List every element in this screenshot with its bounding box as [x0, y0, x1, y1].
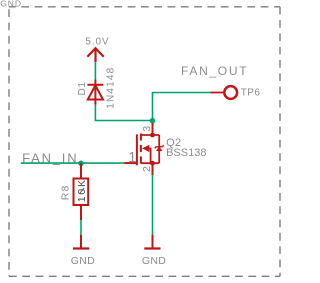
substrate arrow: [142, 145, 149, 152]
svg-text:2: 2: [141, 166, 153, 172]
transistor Q2 (N-MOSFET BSS138): [124, 133, 159, 165]
resistor R8 lead from FAN_IN node: [80, 163, 82, 178]
ground (Q2 source): [144, 235, 160, 249]
body diode cathode bar: [155, 145, 164, 148]
wire Q2 source to GND: [152, 175, 154, 235]
svg-text:R8: R8: [60, 184, 72, 200]
diode D1: [87, 80, 103, 105]
slashed zero of 10K: [80, 188, 84, 193]
gate plate: [136, 134, 138, 165]
channel segments: [140, 133, 142, 140]
wire D1 anode down and right to Q2 drain node: [95, 105, 152, 121]
source rail: [141, 162, 159, 164]
junction FAN_IN / R8: [78, 161, 84, 167]
wire drain node up and right to TP6: [153, 93, 211, 121]
svg-text:3: 3: [141, 126, 153, 132]
wire FAN_IN to Q2 gate: [21, 162, 124, 164]
body diode triangle: [156, 147, 163, 151]
resistor R8 bottom lead: [80, 205, 82, 220]
body rail: [158, 135, 160, 163]
wire 5.0V to D1 cathode: [94, 62, 96, 80]
pin 3 drain lead: [152, 123, 154, 135]
svg-text:GND: GND: [71, 255, 95, 267]
junction drain node: [150, 118, 156, 124]
svg-text:GND: GND: [0, 0, 22, 8]
drain rail: [141, 134, 159, 136]
svg-text:1: 1: [128, 150, 136, 166]
pin 2 source lead: [152, 163, 154, 175]
supply +5.0V symbol: [87, 48, 103, 62]
svg-text:D1: D1: [77, 82, 88, 96]
svg-text:GND: GND: [142, 255, 166, 267]
source pin junction dot: [150, 161, 155, 166]
svg-text:TP6: TP6: [241, 87, 261, 98]
svg-text:1N4148: 1N4148: [106, 67, 117, 109]
pin 1 gate lead: [124, 162, 137, 164]
resistor R8: [74, 179, 89, 206]
test point TP6 pin wire: [211, 92, 224, 94]
ground (R8): [73, 235, 89, 249]
svg-text:BSS138: BSS138: [166, 147, 206, 159]
svg-text:FAN_OUT: FAN_OUT: [181, 64, 248, 78]
wire R8 to GND: [80, 220, 82, 235]
svg-text:5.0V: 5.0V: [85, 37, 109, 48]
test point TP6: [224, 86, 237, 99]
drain pin junction dot: [150, 133, 155, 138]
substrate arrow link: [149, 148, 150, 163]
